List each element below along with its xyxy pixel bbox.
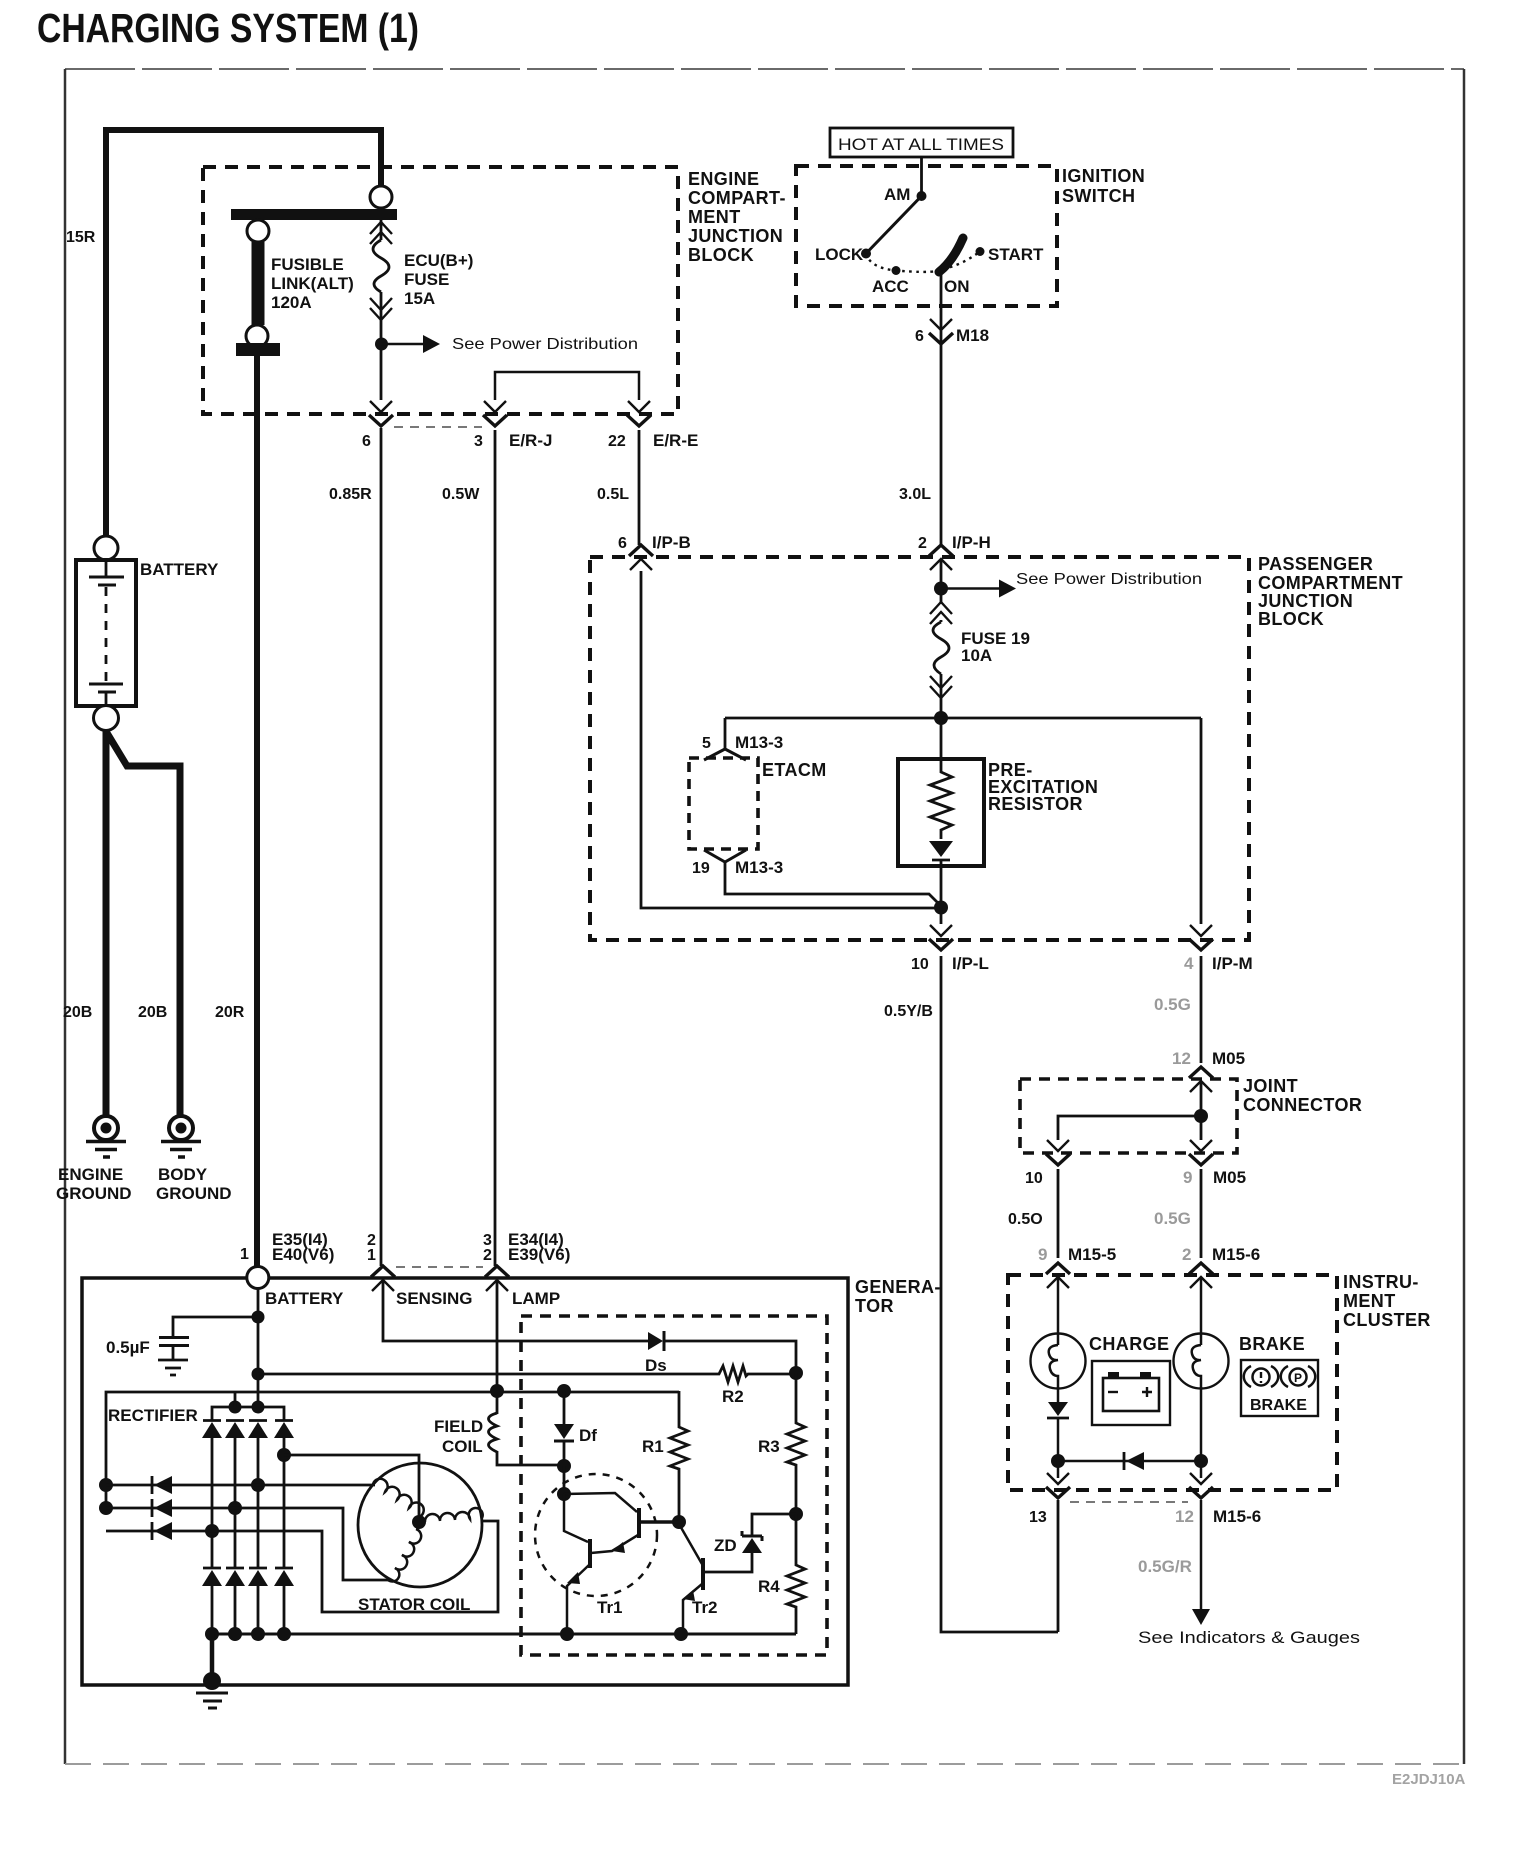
junction dot lamp-lineA [490,1384,504,1398]
svg-text:COMPARTMENT: COMPARTMENT [1258,573,1403,593]
svg-text:0.5W: 0.5W [442,486,480,503]
label PASSENGER COMPARTMENT JUNCTION BLOCK [1258,554,1403,629]
wire joint connector bridge [1058,1116,1201,1140]
wire branch to I/P-M [1200,718,1203,924]
svg-text:10: 10 [911,956,929,973]
junction dot fuse19 output [934,711,948,725]
label FUSIBLE LINK(ALT) 120A [271,255,354,312]
svg-text:0.5G: 0.5G [1154,1209,1191,1228]
svg-text:Tr2: Tr2 [692,1598,718,1617]
Tr1 base link to R1 [639,1520,679,1524]
phase line 1 [106,1484,375,1487]
junction dot R1 bottom / Tr1 base [672,1515,686,1529]
rectifier upper diode 4 [274,1421,294,1439]
svg-text:TOR: TOR [855,1296,894,1316]
wire ON output 3.0L [940,272,943,545]
wire lamp run into field coil [496,1280,499,1414]
svg-text:BLOCK: BLOCK [1258,609,1324,629]
connector 12 M15-6 exit [1189,1473,1213,1498]
passenger compartment junction block dashed box [590,557,1249,940]
svg-text:GENERA-: GENERA- [855,1277,941,1297]
terminal circle above fusible link [247,220,269,242]
Tr1 driver base bar [637,1508,641,1538]
svg-text:LINK(ALT): LINK(ALT) [271,274,354,293]
junction dot Tr2 emitter at bus [674,1627,688,1641]
junction dot see-power (passenger) [934,582,948,596]
svg-text:CHARGING SYSTEM (1): CHARGING SYSTEM (1) [37,5,419,51]
svg-text:RECTIFIER: RECTIFIER [108,1406,198,1425]
svg-text:120A: 120A [271,293,312,312]
svg-text:GROUND: GROUND [56,1184,132,1203]
fuse holder chevrons above fuse 19 [930,602,952,624]
generator ground symbol [196,1693,228,1708]
engine ground symbol [86,1116,126,1157]
svg-text:20B: 20B [63,1004,92,1021]
junction dot aux1 [99,1478,113,1492]
wire charge lamp to diode [1057,1388,1060,1402]
field coil element [489,1413,498,1452]
svg-text:0.5L: 0.5L [597,486,629,503]
connector 2 I/P-H [929,545,953,570]
junction dot phase4-stator-tap [277,1448,291,1462]
svg-text:I/P-M: I/P-M [1212,954,1253,973]
wire to capacitor [173,1317,258,1336]
wire 13 return to 0.5Y/B [1057,1500,1060,1632]
wire ECU fuse branch [380,220,383,430]
diode Ds [648,1331,664,1351]
svg-text:M05: M05 [1213,1168,1246,1187]
connector 10 (M05 exit left) [1046,1140,1070,1165]
svg-text:9: 9 [1183,1168,1192,1187]
junction dot bus leg2 [228,1627,242,1641]
instrument cluster dashed box [1008,1275,1337,1490]
svg-text:ETACM: ETACM [762,760,827,780]
label PRE-EXCITATION RESISTOR [988,760,1098,814]
wire to exit 13 [1057,1461,1060,1478]
wire M15-6 to indicators [1200,1500,1203,1610]
ECU(B+) fuse 15A element [373,240,389,292]
svg-text:20B: 20B [138,1004,167,1021]
terminal circle at bus (ALT feed) [370,186,392,208]
wire 0.85R sensing run [380,430,383,1266]
ignition switch dashed box [796,166,1057,306]
resistor R3 [787,1373,805,1514]
wire R2 rail with resistor R2 [258,1366,796,1382]
label IGNITION SWITCH [1062,166,1145,206]
stator winding right [425,1508,483,1522]
svg-text:FIELD: FIELD [434,1417,483,1436]
junction dot capacitor tap [252,1311,265,1324]
wire battery node vertical [257,1288,260,1374]
wire 0.5W lamp run [494,430,497,1266]
wire sensing run to Ds [383,1280,648,1341]
junction dot R2-R3-Ds [789,1366,803,1380]
svg-text:9: 9 [1038,1245,1047,1264]
fuse 19 10A element [933,622,949,674]
wire 0.5Y/B long run [941,956,1058,1632]
svg-text:LAMP: LAMP [512,1289,560,1308]
svg-text:M18: M18 [956,326,989,345]
connector group dashed line M15-6 [1070,1501,1188,1503]
wire into brake lamp [1200,1277,1203,1345]
diode cross link pointing left [1124,1452,1144,1470]
junction dot phase1-line1 [251,1478,265,1492]
svg-text:COIL: COIL [442,1437,483,1456]
pre-excitation resistor element [929,718,953,905]
wire 0.5G brake lamp [1200,1169,1203,1258]
wire brake lamp to junction [1200,1388,1203,1461]
svg-text:Df: Df [579,1426,597,1445]
wire 0.5L to I/P-B [638,430,641,545]
connector 2/1 sensing [371,1266,395,1291]
svg-text:6: 6 [618,535,627,552]
dotted travel arc LOCK-ACC-ON-START [866,252,980,272]
joint connector dashed box [1020,1079,1237,1153]
label ENGINE COMPARTMENT JUNCTION BLOCK [688,169,786,265]
wire battery positive 15R thick [106,130,381,547]
body ground symbol [161,1116,201,1157]
voltage regulator dashed box [521,1316,827,1655]
junction dot R3 bottom [789,1507,803,1521]
label ECU(B+) FUSE 15A [404,251,473,308]
svg-text:M13-3: M13-3 [735,858,783,877]
wire Ds to R3 top [664,1341,796,1373]
svg-text:I/P-H: I/P-H [952,533,991,552]
rectifier lower diode 4 [274,1568,294,1586]
junction dot Df top [557,1384,571,1398]
wire 0.5O charge lamp [1057,1169,1060,1258]
wire battery negative to engine ground 20B [103,730,110,1117]
stator center dot [412,1515,426,1529]
connector 6 I/P-B [629,545,653,570]
svg-text:BATTERY: BATTERY [140,560,219,579]
brake lamp bulb [1174,1334,1229,1389]
label FIELD COIL [434,1417,483,1456]
svg-text:BODY: BODY [158,1165,208,1184]
svg-text:R1: R1 [642,1437,664,1456]
rectifier upper diode 1 [202,1421,222,1439]
fuse holder chevrons above ECU fuse [370,222,392,244]
junction dot bus leg3 [251,1627,265,1641]
wire I/P-B to I/P-L node [641,571,938,908]
connector 19 M13-3 [704,850,746,862]
generator ground dot [203,1672,221,1690]
svg-text:2: 2 [483,1247,492,1264]
svg-text:Tr1: Tr1 [597,1598,623,1617]
junction dot bus-v2 [229,1401,242,1414]
svg-text:GROUND: GROUND [156,1184,232,1203]
svg-text:M05: M05 [1212,1049,1245,1068]
svg-text:10: 10 [1025,1170,1043,1187]
connector pin 6 at engine block exit [369,401,393,426]
connector 9 (M05 exit right) [1189,1140,1213,1165]
svg-text:BLOCK: BLOCK [688,245,754,265]
rectifier phase verticals [212,1438,284,1568]
connector group dashed line E34 [396,1266,483,1268]
svg-text:0.85R: 0.85R [329,486,372,503]
wire Df bottom to Tr1 collector [563,1466,566,1494]
arrow see power distribution (engine block) [381,335,440,353]
aux diode 1 [152,1476,172,1494]
Tr1 output base bar [588,1539,592,1568]
junction dot brake side [1194,1454,1208,1468]
connector 4 I/P-M [1189,925,1213,950]
stator winding upper-left [373,1479,424,1517]
engine compartment junction block dashed box [203,167,678,414]
ACC contact dot [892,266,901,275]
diode Df [554,1391,574,1466]
aux diode 2 [152,1499,172,1517]
connector 12 M05 [1189,1067,1213,1092]
svg-text:E/R-J: E/R-J [509,431,552,450]
svg-text:0.5G: 0.5G [1154,995,1191,1014]
svg-text:10A: 10A [961,646,992,665]
label GENERATOR [855,1277,941,1316]
svg-text:JUNCTION: JUNCTION [1258,591,1353,611]
svg-text:MENT: MENT [688,207,741,227]
svg-text:JOINT: JOINT [1243,1076,1298,1096]
svg-text:6: 6 [915,328,924,345]
svg-text:2: 2 [918,535,927,552]
wire into charge lamp [1057,1277,1060,1345]
svg-text:12: 12 [1172,1049,1191,1068]
generator box [82,1278,848,1685]
svg-text:2: 2 [1182,1245,1191,1264]
junction dot Tr1 collector node [557,1487,571,1501]
wire to I/P-L connector [940,907,943,924]
svg-text:R4: R4 [758,1577,780,1596]
svg-text:BRAKE: BRAKE [1250,1397,1307,1414]
svg-text:I/P-L: I/P-L [952,954,989,973]
svg-text:4: 4 [1184,954,1194,973]
svg-text:0.5Y/B: 0.5Y/B [884,1003,933,1020]
stator center tap line [284,1455,419,1518]
svg-text:R2: R2 [722,1387,744,1406]
resistor R4 [787,1514,805,1634]
junction dot charge side [1051,1454,1065,1468]
svg-text:MENT: MENT [1343,1291,1396,1311]
junction dot Tr1 emitter at bus [560,1627,574,1641]
connector 3 E/R-J [483,401,507,426]
svg-text:LOCK: LOCK [815,245,864,264]
junction dot bus-battery [252,1401,265,1414]
svg-text:CHARGE: CHARGE [1089,1334,1169,1354]
svg-text:20R: 20R [215,1004,245,1021]
battery top terminal circle [94,536,118,560]
wire battery rail to rectifier bus [257,1374,260,1407]
svg-text:See Indicators & Gauges: See Indicators & Gauges [1138,1628,1360,1647]
battery bottom terminal circle [94,706,119,731]
Tr1 output emitter with arrow [567,1565,589,1634]
svg-text:See Power Distribution: See Power Distribution [1016,571,1202,588]
switch wiper AM to LOCK [866,196,922,254]
svg-text:SWITCH: SWITCH [1062,186,1135,206]
phase line 3 [106,1521,498,1612]
junction dot bus leg1 [205,1627,219,1641]
connector 13 exit [1046,1473,1070,1498]
wire field coil to Df bottom [497,1451,564,1465]
connector 1 battery terminal circle [247,1267,269,1289]
wire 20R from fusible link to generator [254,356,260,1266]
svg-text:ACC: ACC [872,277,909,296]
junction dot phase2-line2 [228,1501,242,1515]
svg-text:E/R-E: E/R-E [653,431,698,450]
svg-text:ZD: ZD [714,1536,737,1555]
connector 2 M15-6 [1189,1263,1213,1288]
wire diode to junction [1057,1418,1060,1461]
wire battery negative branch to body ground 20B [107,733,180,1117]
svg-text:HOT AT ALL TIMES: HOT AT ALL TIMES [838,136,1004,154]
svg-text:ENGINE: ENGINE [58,1165,123,1184]
label FUSE 19 10A [961,629,1030,665]
rectifier upper diode 2 [225,1421,245,1439]
svg-text:6: 6 [362,433,371,450]
connector 5 M13-3 [704,749,746,760]
fusible link (ALT) 120A element [252,242,265,325]
svg-text:3.0L: 3.0L [899,486,931,503]
rectifier lower diode 3 [248,1568,268,1586]
svg-text:E40(V6): E40(V6) [272,1245,334,1264]
internal bridge wire E/R-J to E/R-E [495,372,639,400]
svg-text:12: 12 [1175,1507,1194,1526]
svg-text:CONNECTOR: CONNECTOR [1243,1095,1362,1115]
fuse holder chevrons below ECU fuse [370,298,392,320]
svg-text:See Power Distribution: See Power Distribution [452,336,638,353]
capacitor 0.5uF [158,1338,189,1376]
svg-text:IGNITION: IGNITION [1062,166,1145,186]
START contact dot [976,247,985,256]
junction dot phase3-line3 [205,1524,219,1538]
connector 3/2 lamp [485,1266,509,1291]
diode below charge lamp [1047,1402,1069,1418]
svg-text:E39(V6): E39(V6) [508,1245,570,1264]
wire stub v2 to line A [234,1391,237,1407]
ETACM dashed box [689,758,758,849]
svg-text:3: 3 [474,433,483,450]
svg-text:STATOR COIL: STATOR COIL [358,1595,470,1614]
rectifier upper diode 3 [248,1421,268,1439]
svg-text:E2JDJ10A: E2JDJ10A [1392,1771,1466,1788]
wire 0.5G to M05 [1200,956,1203,1063]
svg-text:AM: AM [884,185,910,204]
fuse holder chevrons below fuse 19 [930,676,952,698]
svg-text:JUNCTION: JUNCTION [688,226,783,246]
HOT AT ALL TIMES tag box [830,128,1013,157]
AM contact dot [917,191,927,201]
wire HOT feed to AM [920,157,923,195]
resistor R1 [670,1391,688,1522]
svg-text:R3: R3 [758,1437,780,1456]
wire drop to ETACM [724,718,727,749]
wire to exit 12 [1200,1461,1203,1478]
svg-text:ECU(B+): ECU(B+) [404,251,473,270]
rectifier lower diode 2 [225,1568,245,1586]
Tr1 driver collector line [564,1493,637,1512]
wire ETACM return to I/P-L node [725,862,941,906]
Tr1 driver emitter with arrow [591,1535,638,1553]
junction dot I/P-L node [934,901,948,915]
svg-text:START: START [988,245,1044,264]
connector group dashed line E/R [394,426,482,428]
svg-text:FUSE: FUSE [404,270,449,289]
wire cross link with diode [1058,1460,1201,1463]
svg-text:ENGINE: ENGINE [688,169,759,189]
rectifier top bus [212,1407,284,1420]
junction dot battery-R2 rail [252,1368,265,1381]
svg-text:COMPART-: COMPART- [688,188,786,208]
junction dot aux2 [99,1501,113,1515]
stator winding lower-left [387,1529,421,1581]
junction dot joint connector [1194,1109,1208,1123]
brake warning icon [1241,1360,1318,1416]
phase line 2 [106,1508,391,1580]
svg-text:BRAKE: BRAKE [1239,1334,1305,1354]
svg-text:I/P-B: I/P-B [652,533,691,552]
svg-text:19: 19 [692,860,710,877]
wire M05 entry [1200,1081,1203,1140]
Tr2 emitter with arrow [683,1584,702,1634]
charge lamp bulb [1031,1334,1086,1389]
svg-text:22: 22 [608,433,626,450]
transistor Tr2 base bar [701,1558,705,1590]
svg-text:1: 1 [367,1247,376,1264]
svg-text:ON: ON [944,277,970,296]
svg-text:SENSING: SENSING [396,1289,473,1308]
svg-text:FUSIBLE: FUSIBLE [271,255,344,274]
rectifier lower diode 1 [202,1568,222,1586]
zener diode ZD [704,1514,796,1572]
transistor Tr1 dashed circle [535,1474,657,1596]
svg-text:M15-5: M15-5 [1068,1245,1116,1264]
wire fuse output rail [725,717,1201,720]
ON thick lever [939,238,963,272]
LOCK contact dot [861,249,871,259]
arrow see power distribution (passenger) [941,580,1016,598]
svg-text:PASSENGER: PASSENGER [1258,554,1373,574]
svg-text:15R: 15R [66,229,96,246]
bottom bus [212,1633,796,1636]
stator coil circle [358,1463,482,1587]
svg-text:P: P [1294,1371,1302,1385]
Tr1 output collector line [564,1494,588,1542]
pre-excitation resistor box [898,759,984,866]
svg-text:0.5O: 0.5O [1008,1211,1043,1228]
connector 9 M15-5 [1046,1263,1070,1288]
bus bar top [231,209,397,220]
svg-text:RESISTOR: RESISTOR [988,794,1083,814]
bus bar bottom [236,343,280,356]
generator ground wire [210,1634,215,1685]
svg-text:M13-3: M13-3 [735,733,783,752]
svg-text:M15-6: M15-6 [1213,1507,1261,1526]
connector 22 E/R-E [627,401,651,426]
terminal circle below fusible link [246,325,268,347]
svg-text:1: 1 [240,1246,249,1263]
svg-text:Ds: Ds [645,1356,667,1375]
wire line A aux rail [106,1392,679,1510]
arrow see indicators [1192,1609,1210,1625]
aux diode 3 [152,1522,172,1540]
junction dot see-power-distribution [375,338,388,351]
junction dot Df bottom [557,1459,571,1473]
svg-text:15A: 15A [404,289,435,308]
svg-text:BATTERY: BATTERY [265,1289,344,1308]
connector 6 M18 [929,319,953,344]
svg-text:M15-6: M15-6 [1212,1245,1260,1264]
svg-text:13: 13 [1029,1509,1047,1526]
charge battery icon [1092,1361,1170,1425]
svg-text:INSTRU-: INSTRU- [1343,1272,1419,1292]
